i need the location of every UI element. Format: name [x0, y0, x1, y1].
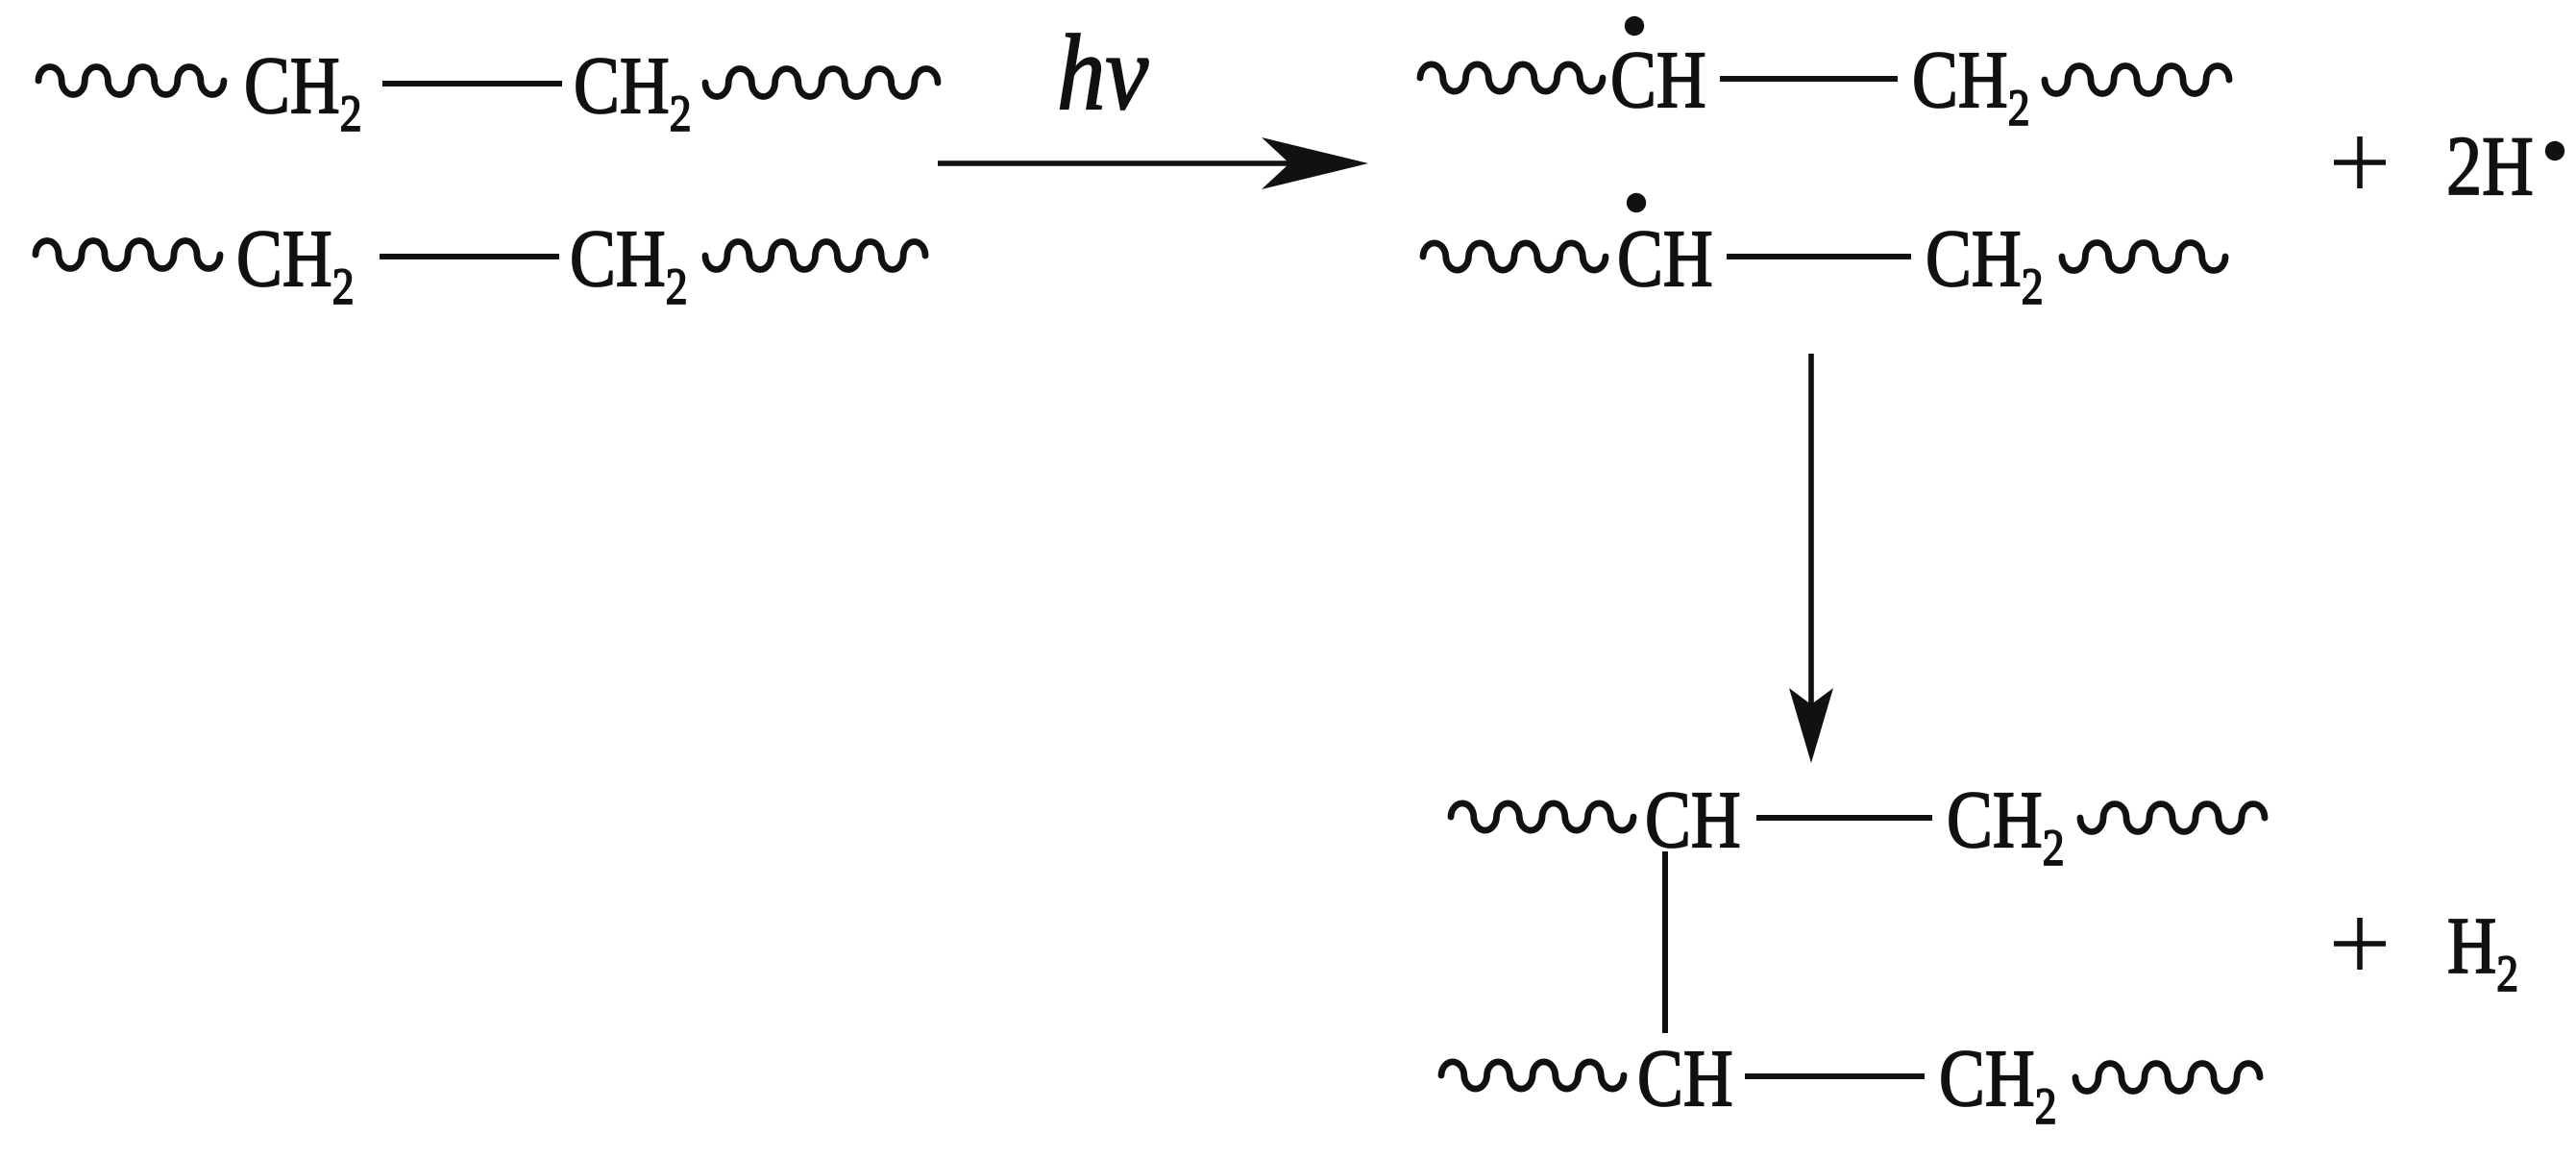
radical chain 2 left wavy bond [1423, 243, 1606, 270]
svg-text:CH: CH [1610, 35, 1706, 125]
svg-text:CH2: CH2 [574, 40, 692, 141]
radical chain 2 right wavy bond [2062, 242, 2225, 270]
crosslink chain 1 C-C single bond [1756, 815, 1932, 821]
crosslink chain 2 left wavy bond [1441, 1062, 1624, 1089]
svg-text:H2: H2 [2447, 900, 2518, 1001]
svg-text:CH2: CH2 [1912, 35, 2030, 136]
radical chain 1 C-C single bond [1720, 76, 1898, 82]
crosslink C-C vertical bond [1662, 851, 1668, 1033]
crosslink chain 1 left wavy bond [1451, 803, 1633, 830]
polymer chain 2 right wavy bond [705, 241, 925, 269]
svg-text:CH: CH [1637, 1033, 1733, 1123]
svg-text:CH: CH [1645, 775, 1741, 865]
radical dot on 2H [2545, 141, 2564, 160]
svg-text:CH2: CH2 [236, 213, 355, 314]
svg-text:CH2: CH2 [1947, 775, 2065, 875]
svg-text:CH2: CH2 [570, 213, 688, 314]
chain 2 C-C single bond [380, 254, 559, 259]
chain 1 C-C single bond [382, 81, 562, 86]
polymer chain 2 left wavy bond [36, 241, 220, 269]
radical chain 2 C-C single bond [1727, 254, 1911, 259]
combination arrow shaft [1808, 354, 1814, 711]
reaction arrow hv shaft [938, 160, 1345, 166]
radical chain 1 right wavy bond [2045, 66, 2229, 94]
plus sign before H2 [2334, 941, 2386, 947]
radical dot on chain 2 CH [1627, 193, 1646, 212]
radical chain 1 left wavy bond [1420, 64, 1603, 91]
svg-text:2H: 2H [2446, 118, 2534, 212]
combination arrow head [1789, 688, 1833, 763]
polymer chain 1 left wavy bond [38, 67, 224, 95]
reaction arrow hv head [1262, 137, 1368, 189]
svg-text:CH2: CH2 [244, 40, 362, 141]
crosslink chain 1 right wavy bond [2080, 804, 2265, 832]
svg-text:CH2: CH2 [1939, 1033, 2057, 1134]
svg-text:CH: CH [1617, 213, 1713, 304]
crosslink chain 2 C-C single bond [1745, 1073, 1925, 1079]
svg-text:hv: hv [1057, 13, 1149, 133]
radical dot on chain 1 CH [1625, 16, 1644, 36]
plus sign between radicals and 2H [2334, 160, 2386, 165]
crosslink chain 2 right wavy bond [2075, 1064, 2260, 1092]
svg-text:CH2: CH2 [1926, 213, 2044, 314]
polymer chain 1 right wavy bond [705, 68, 938, 96]
